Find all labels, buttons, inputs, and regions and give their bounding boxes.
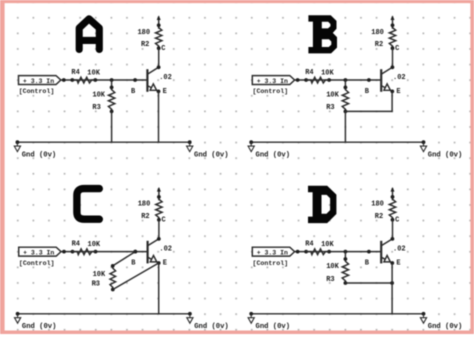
input flag +3.3 In (C): [19, 247, 61, 256]
designator label R2 (C): [141, 213, 149, 221]
designator label R3 (A): [92, 104, 100, 112]
wire emitter to ground rail (D): [391, 263, 393, 314]
ground right Gnd 0v (D): [420, 312, 462, 331]
resistor R2 (D): [389, 195, 395, 222]
ground rail wire (C): [18, 313, 190, 315]
resistor R2 (B): [389, 23, 395, 50]
value label .02 (B): [393, 74, 406, 82]
ground rail wire (D): [251, 313, 423, 315]
svg-text:.02: .02: [159, 246, 172, 254]
svg-text:[Control]: [Control]: [19, 88, 55, 95]
node base junction (D): [344, 250, 348, 254]
value label 10K (R3 B): [326, 92, 339, 100]
input flag +3.3 In (B): [252, 76, 294, 85]
svg-text:.02: .02: [393, 74, 406, 82]
svg-text:R4: R4: [71, 69, 79, 77]
svg-text:Gnd (0v): Gnd (0v): [194, 151, 229, 159]
svg-text:R2: R2: [141, 213, 149, 221]
svg-text:R2: R2: [375, 41, 383, 49]
pin label C collector (C): [162, 217, 166, 225]
resistor R4 (D): [306, 249, 329, 255]
svg-text:+ 3.3 In: + 3.3 In: [257, 78, 288, 85]
pin label C collector (B): [395, 45, 399, 53]
wire R2 to collector (B): [392, 48, 394, 67]
node base junction (A): [110, 78, 114, 82]
value label 180 (R2 B): [371, 29, 384, 37]
svg-text:E: E: [396, 88, 400, 96]
wire R2 to collector (C): [158, 220, 160, 239]
designator label R4 (A): [71, 69, 79, 77]
svg-text:Gnd (0v): Gnd (0v): [256, 151, 291, 159]
svg-text:10K: 10K: [87, 69, 100, 77]
ground right Gnd 0v (A): [187, 140, 229, 159]
value label .02 (D): [393, 246, 406, 254]
pin label C collector (D): [395, 217, 399, 225]
wire base node to R3 (A): [111, 80, 113, 87]
value label 10K (R4 D): [321, 241, 334, 249]
node base junction (B): [344, 78, 348, 82]
ground left Gnd 0v (A): [14, 140, 56, 159]
power supply arrow (panel D): [391, 187, 395, 200]
wire R3 to emitter diagonal (C): [113, 263, 159, 290]
ground right Gnd 0v (B): [420, 140, 462, 159]
ground left Gnd 0v (B): [248, 140, 290, 159]
ground rail wire (B): [251, 141, 423, 143]
wire R3 to emitter wire (D): [345, 281, 394, 285]
pin label E emitter (D): [396, 260, 400, 268]
svg-text:R4: R4: [305, 241, 313, 249]
svg-text:Gnd (0v): Gnd (0v): [428, 323, 463, 331]
value label 10K (R4 B): [321, 69, 334, 77]
svg-text:Gnd (0v): Gnd (0v): [22, 151, 57, 159]
svg-text:[Control]: [Control]: [253, 260, 289, 267]
wire input to base node (B): [295, 78, 382, 82]
node base junction (C): [133, 250, 137, 254]
designator label R3 (D): [326, 276, 334, 284]
value label 180 (R2 D): [371, 201, 384, 209]
panel letter A: [79, 19, 99, 50]
svg-text:+ 3.3 In: + 3.3 In: [23, 250, 54, 257]
svg-text:180: 180: [371, 201, 384, 209]
pin label B base (D): [365, 259, 370, 267]
panel letter D: [308, 186, 336, 223]
wire emitter to ground rail (C): [158, 263, 160, 314]
value label .02 (A): [159, 74, 172, 82]
resistor R3 (A): [108, 86, 114, 114]
power supply arrow (panel A): [157, 15, 161, 28]
pin label E emitter (B): [396, 88, 400, 96]
svg-text:C: C: [395, 217, 399, 225]
svg-text:10K: 10K: [88, 241, 101, 249]
net label [Control] (B): [253, 88, 289, 95]
wire emitter to ground rail (A): [158, 91, 160, 142]
designator label R2 (A): [141, 41, 149, 49]
resistor R4 (A): [72, 77, 95, 83]
svg-text:E: E: [163, 260, 167, 268]
svg-text:180: 180: [371, 29, 384, 37]
svg-text:10K: 10K: [321, 241, 334, 249]
value label 180 (R2 C): [138, 201, 151, 209]
value label 10K (R3 A): [92, 92, 105, 100]
svg-text:R3: R3: [326, 276, 334, 284]
svg-text:10K: 10K: [326, 92, 339, 100]
panel letter B: [308, 15, 337, 53]
net label [Control] (D): [253, 260, 289, 267]
designator label R4 (B): [305, 69, 313, 77]
transistor Q1 npn (D): [381, 237, 394, 265]
svg-text:[Control]: [Control]: [19, 260, 55, 267]
value label 10K (R4 C): [88, 241, 101, 249]
svg-text:Gnd (0v): Gnd (0v): [22, 323, 57, 331]
svg-text:R3: R3: [326, 104, 334, 112]
pin label C collector (A): [161, 45, 165, 53]
ground left Gnd 0v (C): [15, 312, 57, 331]
svg-text:C: C: [162, 217, 166, 225]
power supply arrow (panel C): [157, 187, 161, 200]
svg-text:C: C: [395, 45, 399, 53]
svg-text:R2: R2: [141, 41, 149, 49]
svg-text:C: C: [161, 45, 165, 53]
resistor R3 (B): [342, 86, 348, 114]
svg-text:10K: 10K: [92, 92, 105, 100]
net label [Control] (A): [19, 88, 55, 95]
svg-text:10K: 10K: [321, 69, 334, 77]
svg-text:R4: R4: [72, 241, 80, 249]
transistor Q1 npn (A): [147, 65, 160, 93]
transistor Q1 npn (B): [381, 65, 394, 93]
svg-text:R3: R3: [92, 104, 100, 112]
resistor R2 (A): [156, 23, 162, 50]
wire input to base node (A): [61, 78, 148, 82]
ground right Gnd 0v (C): [187, 312, 229, 331]
value label .02 (C): [159, 246, 172, 254]
ground rail wire (A): [17, 141, 189, 143]
svg-text:E: E: [163, 88, 167, 96]
svg-text:R4: R4: [305, 69, 313, 77]
svg-text:10K: 10K: [326, 263, 339, 271]
designator label R2 (D): [375, 213, 383, 221]
svg-text:R2: R2: [375, 213, 383, 221]
value label 10K (R3 D): [326, 263, 339, 271]
wire input to base node (C): [61, 250, 148, 254]
designator label R4 (D): [305, 241, 313, 249]
svg-text:E: E: [396, 260, 400, 268]
pin label B base (A): [131, 88, 136, 96]
ground left Gnd 0v (D): [248, 312, 290, 331]
svg-text:+ 3.3 In: + 3.3 In: [257, 250, 288, 257]
wire R3 to emitter (B): [345, 91, 392, 111]
wire base node to R3 (B): [344, 80, 346, 87]
designator label R2 (B): [375, 41, 383, 49]
svg-text:Gnd (0v): Gnd (0v): [256, 323, 291, 331]
wire R3 to ground rail (A): [111, 111, 113, 142]
value label 10K (R4 A): [87, 69, 100, 77]
wire R2 to collector (D): [392, 220, 394, 239]
designator label R4 (C): [72, 241, 80, 249]
resistor R2 (C): [156, 195, 162, 222]
wire input to base node (D): [295, 250, 382, 254]
transistor Q1 npn (C): [148, 237, 161, 265]
svg-text:.02: .02: [393, 246, 406, 254]
svg-text:.02: .02: [159, 74, 172, 82]
resistor R4 (B): [306, 77, 329, 83]
svg-text:Gnd (0v): Gnd (0v): [194, 323, 229, 331]
svg-text:+ 3.3 In: + 3.3 In: [23, 78, 54, 85]
value label 10K (R3 C): [93, 271, 106, 279]
pin label B base (C): [131, 259, 136, 267]
svg-text:10K: 10K: [93, 271, 106, 279]
pin label E emitter (A): [163, 88, 167, 96]
svg-text:180: 180: [137, 29, 150, 37]
svg-text:R3: R3: [92, 281, 100, 289]
wire base node to R3 diagonal (C): [113, 252, 136, 266]
resistor R3 (C): [110, 264, 116, 291]
svg-text:[Control]: [Control]: [253, 88, 289, 95]
pin label B base (B): [365, 88, 370, 96]
panel letter C: [77, 189, 99, 220]
resistor R3 (D): [342, 257, 348, 285]
wire base node to R3 (D): [344, 252, 346, 259]
pin label E emitter (C): [163, 260, 167, 268]
value label 180 (R2 A): [137, 29, 150, 37]
wire R3 node to ground rail (B): [344, 111, 346, 142]
resistor R4 (C): [73, 249, 96, 255]
designator label R3 (B): [326, 104, 334, 112]
power supply arrow (panel B): [391, 15, 395, 28]
input flag +3.3 In (A): [19, 76, 61, 85]
designator label R3 (C): [92, 281, 100, 289]
wire R2 to collector (A): [158, 48, 160, 67]
net label [Control] (C): [19, 260, 55, 267]
svg-text:Gnd (0v): Gnd (0v): [428, 151, 463, 159]
input flag +3.3 In (D): [252, 247, 294, 256]
svg-text:180: 180: [138, 201, 151, 209]
